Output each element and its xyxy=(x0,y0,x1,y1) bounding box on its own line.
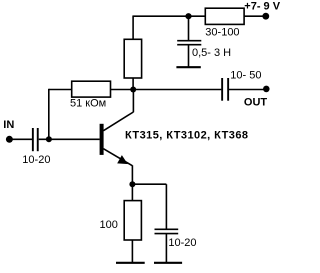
wire emitter resistor top lead xyxy=(131,184,133,201)
node supply junction xyxy=(185,13,191,19)
svg-text:IN: IN xyxy=(3,119,14,131)
capacitor emitter bypass 10-20 plates xyxy=(155,229,179,233)
wire supply rail left segment xyxy=(133,15,206,17)
svg-text:OUT: OUT xyxy=(244,97,268,109)
resistor R collector (vertical, no value) xyxy=(124,39,141,78)
wire filter cap bottom lead xyxy=(188,45,190,67)
terminal OUT xyxy=(263,86,270,93)
resistor 30-100 xyxy=(205,8,244,24)
wire supply rail right segment xyxy=(244,15,266,17)
wire feedback vertical xyxy=(48,89,50,140)
wire out cap to out terminal xyxy=(229,89,266,91)
wire bypass cap top lead xyxy=(165,184,167,229)
wire emitter resistor bottom lead xyxy=(131,240,133,263)
wire emitter diagonal xyxy=(103,149,132,166)
svg-text:КТ315, КТ3102, КТ368: КТ315, КТ3102, КТ368 xyxy=(125,130,248,142)
terminal IN xyxy=(6,136,13,143)
capacitor input 10-20 xyxy=(32,128,39,151)
capacitor out 10-50 xyxy=(221,78,229,101)
wire filter cap top lead xyxy=(188,16,190,40)
wire collector resistor top lead xyxy=(132,16,134,40)
ground under emitter resistor xyxy=(116,262,145,264)
wire collector diagonal xyxy=(103,112,133,131)
wire collector resistor bottom lead xyxy=(132,78,134,91)
svg-text:0,5- 3 Н: 0,5- 3 Н xyxy=(192,47,231,59)
wire emitter vertical xyxy=(131,165,133,184)
wire input terminal to cap xyxy=(12,138,33,140)
node collector junction xyxy=(130,87,136,93)
svg-text:10-20: 10-20 xyxy=(168,237,196,249)
node emitter junction xyxy=(129,181,135,187)
wire collector vertical to transistor xyxy=(132,90,134,113)
wire collector horizontal line xyxy=(110,89,221,91)
svg-text:51 кОм: 51 кОм xyxy=(70,98,106,110)
ground under bypass cap xyxy=(154,262,182,264)
svg-text:10-20: 10-20 xyxy=(22,154,50,166)
capacitor filter 0,5-3H plates xyxy=(177,41,201,45)
transistor emitter arrow xyxy=(118,156,127,163)
svg-text:10- 50: 10- 50 xyxy=(230,69,261,81)
resistor 51 kOm xyxy=(72,81,111,97)
svg-text:+7- 9 V: +7- 9 V xyxy=(244,1,280,13)
resistor 100 (emitter) xyxy=(124,201,141,240)
wire emitter node to bypass cap horizontal xyxy=(132,183,166,185)
transistor base bar xyxy=(100,124,104,155)
svg-text:30-100: 30-100 xyxy=(205,26,239,38)
wire bypass cap bottom lead xyxy=(165,234,167,263)
wire 51k left lead xyxy=(49,89,72,91)
terminal +V xyxy=(262,13,269,20)
node base junction xyxy=(46,136,52,142)
svg-text:100: 100 xyxy=(100,219,118,231)
wire base xyxy=(39,138,100,140)
ground under filter cap xyxy=(176,66,200,68)
